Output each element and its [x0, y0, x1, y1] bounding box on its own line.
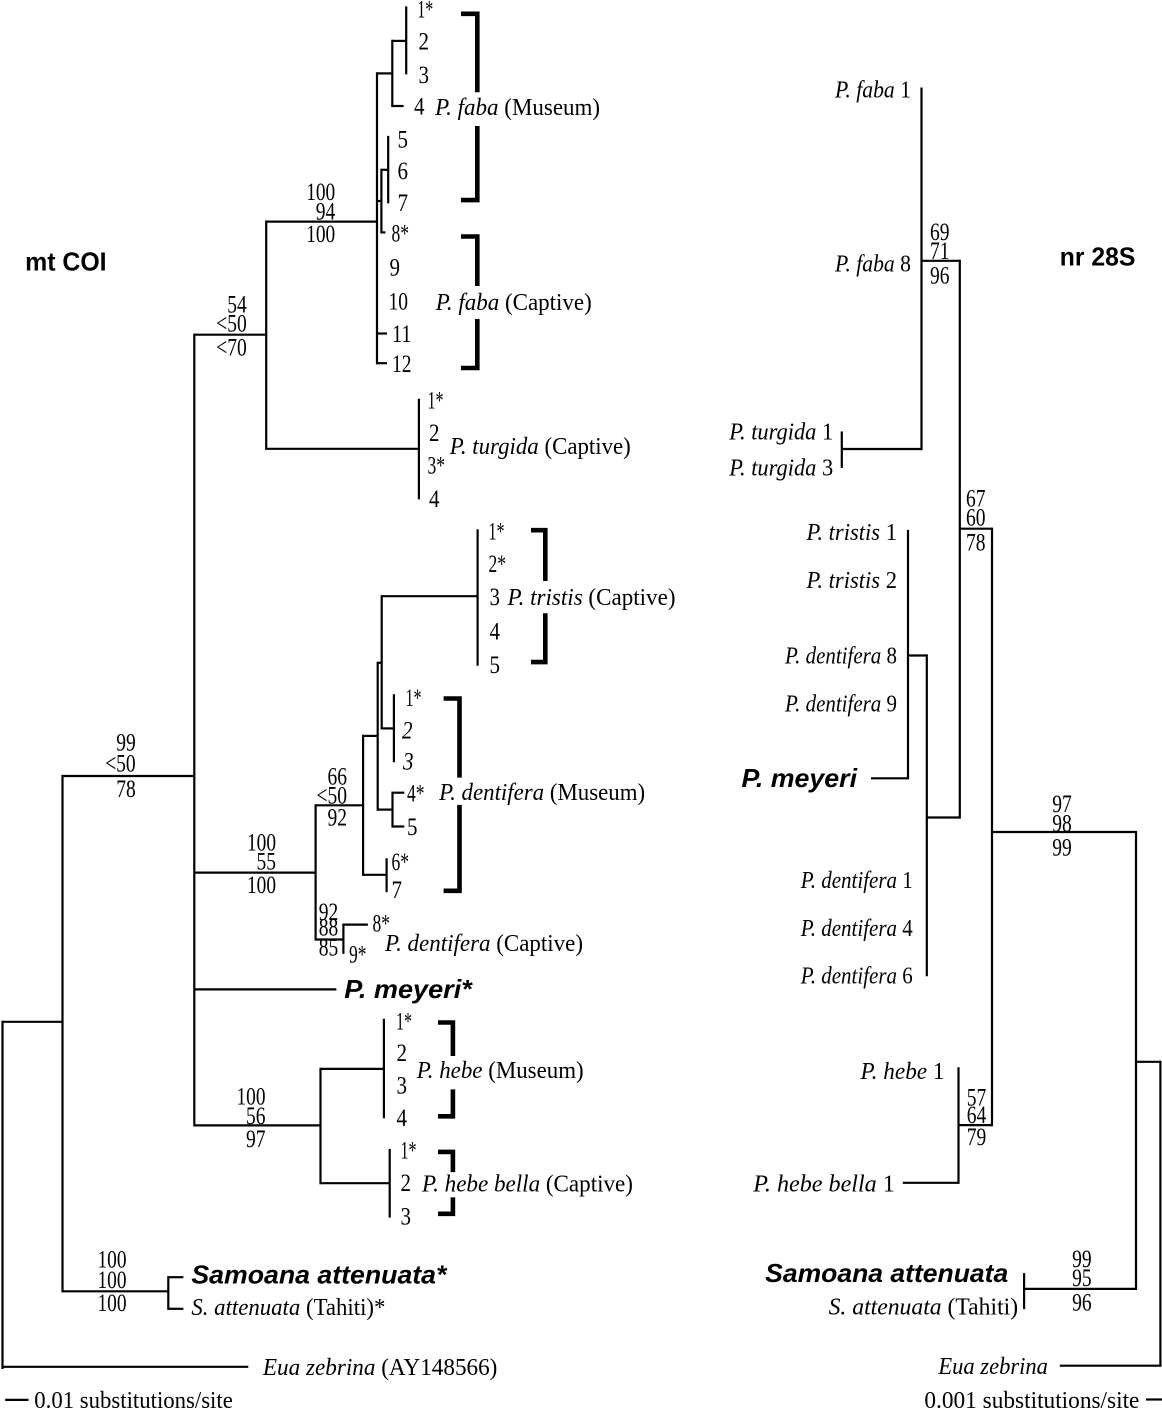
- svg-text:4: 4: [414, 93, 425, 120]
- dentifera 123 cluster branch: [382, 727, 394, 729]
- svg-text:4*: 4*: [407, 780, 425, 807]
- svg-text:3: 3: [397, 1073, 408, 1100]
- dentifera 45 cluster branch: [378, 808, 393, 810]
- svg-text:P. hebe bella (Captive): P. hebe bella (Captive): [421, 1171, 633, 1197]
- svg-text:6*: 6*: [392, 849, 410, 876]
- svg-text:P. hebe 1: P. hebe 1: [860, 1059, 945, 1085]
- faba (567)+8 clade branch: [377, 200, 381, 202]
- svg-text:3: 3: [490, 584, 501, 611]
- svg-text:4: 4: [490, 618, 501, 645]
- branch 66/<50/92: [316, 804, 364, 806]
- faba 5-7 cluster vertical: [387, 136, 389, 204]
- svg-text:<70: <70: [216, 334, 247, 361]
- Samoana clade branch: [63, 1290, 169, 1292]
- svg-text:P. hebe bella 1: P. hebe bella 1: [752, 1171, 895, 1197]
- faba tip 12 branch: [377, 362, 387, 364]
- svg-text:8*: 8*: [392, 221, 410, 248]
- svg-text:3: 3: [402, 749, 413, 776]
- svg-text:9: 9: [390, 255, 401, 282]
- svg-text:100: 100: [98, 1290, 127, 1317]
- P. faba clade vertical: [376, 72, 378, 364]
- branch 67/60/78 R: [960, 528, 992, 530]
- svg-text:2: 2: [429, 420, 440, 447]
- svg-text:P. dentifera 4: P. dentifera 4: [800, 916, 913, 942]
- svg-text:1*: 1*: [417, 0, 433, 23]
- P. meyeri branch R: [871, 777, 908, 779]
- faba (123)+4 clade branch: [377, 72, 392, 74]
- svg-text:nr 28S: nr 28S: [1060, 241, 1136, 271]
- svg-text:1*: 1*: [489, 518, 505, 545]
- P. turgida clade branch: [266, 448, 419, 450]
- P. hebe clade branch: [321, 1068, 384, 1070]
- svg-text:P. faba 8: P. faba 8: [834, 251, 911, 277]
- Samoana cluster vertical: [167, 1276, 169, 1310]
- svg-text:5: 5: [398, 126, 409, 153]
- svg-text:P. hebe (Museum): P. hebe (Museum): [416, 1058, 584, 1084]
- branch 100/56/97: [194, 1124, 320, 1126]
- svg-text:P. tristis (Captive): P. tristis (Captive): [507, 585, 676, 611]
- svg-text:100: 100: [306, 221, 335, 248]
- svg-text:92: 92: [328, 805, 348, 832]
- P. tristis cluster vertical: [477, 529, 479, 666]
- svg-text:P. dentifera (Museum): P. dentifera (Museum): [438, 780, 645, 806]
- faba clade vertical R: [920, 88, 922, 451]
- faba tip 4 branch: [392, 105, 403, 107]
- node 97/98/99 vertical R: [1135, 831, 1137, 1290]
- P. hebe cluster vertical: [383, 1019, 385, 1119]
- svg-text:78: 78: [966, 530, 986, 557]
- dentifera 1-3 cluster vertical: [393, 694, 395, 762]
- svg-text:7: 7: [398, 190, 409, 217]
- branch 66/<50/92 parent: [363, 735, 378, 737]
- svg-text:7: 7: [392, 877, 403, 904]
- faba 123 cluster branch: [392, 40, 406, 42]
- bracket P. dentifera Museum: [444, 699, 460, 778]
- svg-text:S. attenuata (Tahiti): S. attenuata (Tahiti): [829, 1295, 1019, 1321]
- P. meyeri branch: [194, 988, 336, 990]
- svg-text:78: 78: [116, 776, 136, 803]
- svg-text:5: 5: [407, 814, 418, 841]
- branch 99/<50/78: [63, 775, 195, 777]
- faba (123)+4 vertical: [391, 40, 393, 107]
- svg-text:0.01 substitutions/site: 0.01 substitutions/site: [34, 1388, 233, 1409]
- svg-text:2: 2: [402, 718, 413, 745]
- svg-text:71: 71: [930, 238, 950, 265]
- faba clade parent branch R: [922, 260, 960, 262]
- dentifera 6-7 cluster vertical: [386, 858, 388, 892]
- faba (567)+8 vertical: [380, 169, 382, 234]
- svg-text:4: 4: [429, 486, 440, 513]
- svg-text:S. attenuata (Tahiti)*: S. attenuata (Tahiti)*: [191, 1295, 385, 1321]
- svg-text:4: 4: [397, 1105, 408, 1132]
- svg-text:100: 100: [247, 872, 276, 899]
- right scale bar: [1146, 1398, 1162, 1400]
- svg-text:2*: 2*: [489, 551, 507, 578]
- svg-text:P. faba (Captive): P. faba (Captive): [435, 290, 592, 316]
- left scale bar: [5, 1399, 28, 1401]
- root vertical R: [1159, 1061, 1161, 1367]
- faba+turgida node vertical: [265, 221, 267, 450]
- svg-text:P. turgida (Captive): P. turgida (Captive): [449, 434, 631, 460]
- svg-text:3*: 3*: [428, 453, 446, 480]
- svg-text:P. tristis 1: P. tristis 1: [806, 520, 897, 546]
- hebe cluster parent branch R: [959, 1124, 993, 1126]
- branch 100/94/100: [266, 221, 377, 223]
- Samoana attenuata tip branch: [168, 1276, 183, 1278]
- svg-text:P. tristis 2: P. tristis 2: [806, 568, 897, 594]
- svg-text:P. dentifera 9: P. dentifera 9: [784, 691, 897, 717]
- svg-text:<50: <50: [105, 751, 136, 778]
- svg-text:95: 95: [1072, 1265, 1092, 1292]
- hebe cluster vertical R: [957, 1067, 959, 1184]
- svg-text:mt COI: mt COI: [25, 247, 107, 277]
- dentifera cluster parent branch R: [927, 816, 960, 818]
- dentifera tip 8 branch: [343, 923, 368, 925]
- root to upper clade branch: [3, 1021, 63, 1023]
- svg-text:P. faba 1: P. faba 1: [834, 77, 911, 103]
- tristis cluster parent branch R: [908, 654, 927, 656]
- svg-text:60: 60: [966, 505, 986, 532]
- Eua zebrina branch: [3, 1366, 249, 1368]
- dentifera 8-9 cluster vertical: [342, 924, 344, 954]
- node 69/71/96 vertical R: [959, 260, 961, 819]
- dentifera 100/55 node vertical: [315, 804, 317, 940]
- dentifera 67 cluster branch: [363, 874, 387, 876]
- svg-text:P. dentifera 6: P. dentifera 6: [800, 964, 913, 990]
- tristis-meyeri cluster vertical R: [907, 530, 909, 780]
- branch 97/98/99 R: [992, 831, 1136, 833]
- svg-text:96: 96: [930, 263, 950, 290]
- svg-text:85: 85: [319, 935, 339, 962]
- svg-text:Eua zebrina (AY148566): Eua zebrina (AY148566): [262, 1355, 497, 1381]
- svg-text:5: 5: [490, 652, 501, 679]
- svg-text:12: 12: [392, 351, 412, 378]
- bracket P. faba Captive: [461, 237, 477, 287]
- branch 54/<50/<70: [194, 334, 266, 336]
- svg-text:96: 96: [1072, 1290, 1092, 1317]
- svg-text:P. turgida 3: P. turgida 3: [728, 456, 833, 482]
- P. hebe bella clade branch: [321, 1182, 390, 1184]
- bracket P. faba Museum: [461, 14, 477, 93]
- S. attenuata Tahiti tip branch: [168, 1308, 183, 1310]
- dentifera 4-5 cluster vertical: [391, 792, 393, 828]
- svg-text:1*: 1*: [406, 685, 422, 712]
- turgida cluster vertical R: [841, 431, 843, 468]
- svg-text:2: 2: [397, 1040, 408, 1067]
- svg-text:P. meyeri*: P. meyeri*: [344, 974, 473, 1004]
- svg-text:2: 2: [401, 1170, 412, 1197]
- branch 100/55/100: [194, 871, 315, 873]
- svg-text:P. dentifera 1: P. dentifera 1: [800, 868, 913, 894]
- dentifera cluster vertical R: [926, 654, 928, 976]
- svg-text:9*: 9*: [349, 942, 367, 969]
- svg-text:Samoana attenuata*: Samoana attenuata*: [191, 1259, 448, 1289]
- svg-text:10: 10: [389, 289, 409, 316]
- svg-text:3: 3: [401, 1203, 412, 1230]
- svg-text:P. turgida 1: P. turgida 1: [728, 420, 833, 446]
- svg-text:Samoana attenuata: Samoana attenuata: [765, 1258, 1008, 1288]
- Samoana clade branch R: [1024, 1288, 1136, 1290]
- bracket P. tristis: [531, 530, 545, 581]
- tristis+dent123 node vertical: [381, 595, 383, 729]
- P. tristis clade branch: [382, 595, 478, 597]
- faba 1-3 cluster vertical: [405, 6, 407, 74]
- dentifera tip 5 branch: [393, 825, 405, 827]
- bracket P. hebe bella: [438, 1152, 453, 1172]
- svg-text:P. dentifera 8: P. dentifera 8: [784, 644, 897, 670]
- P. hebe bella 1 branch R: [903, 1182, 959, 1184]
- svg-text:6: 6: [398, 158, 409, 185]
- Partula backbone vertical: [193, 334, 195, 1127]
- root vertical: [1, 1021, 3, 1369]
- turgida cluster branch R: [842, 448, 922, 450]
- hebe node vertical: [319, 1068, 321, 1185]
- svg-text:P. faba (Museum): P. faba (Museum): [434, 95, 600, 121]
- svg-text:2: 2: [419, 29, 430, 56]
- svg-text:0.001 substitutions/site: 0.001 substitutions/site: [924, 1388, 1139, 1409]
- svg-text:99: 99: [1052, 835, 1072, 862]
- svg-text:1*: 1*: [428, 388, 444, 415]
- tristis node parent branch: [378, 662, 382, 664]
- svg-text:3: 3: [419, 62, 430, 89]
- node Partula+Samoana vertical: [61, 775, 63, 1293]
- faba tip 8 branch: [381, 231, 385, 233]
- P. hebe bella cluster vertical: [389, 1149, 391, 1218]
- dentifera tip 4 branch: [393, 792, 405, 794]
- svg-text:97: 97: [246, 1126, 266, 1153]
- svg-text:79: 79: [967, 1124, 987, 1151]
- dentifera upper node vertical: [377, 662, 379, 811]
- svg-text:1*: 1*: [401, 1138, 417, 1165]
- Eua zebrina branch R: [1060, 1365, 1161, 1367]
- dentifera 66-node vertical: [362, 735, 364, 876]
- svg-text:P. meyeri: P. meyeri: [742, 763, 858, 793]
- node 67/60/78 vertical R: [991, 528, 993, 1127]
- svg-text:98: 98: [1052, 811, 1072, 838]
- bracket P. hebe Museum: [438, 1023, 453, 1057]
- faba 567 cluster branch: [381, 169, 388, 171]
- root upper branch R: [1136, 1061, 1160, 1063]
- P. turgida cluster vertical: [418, 399, 420, 500]
- svg-text:11: 11: [392, 321, 412, 348]
- svg-text:Eua zebrina: Eua zebrina: [937, 1354, 1047, 1380]
- svg-text:P. dentifera (Captive): P. dentifera (Captive): [384, 931, 583, 957]
- Samoana cluster vertical R: [1023, 1273, 1025, 1309]
- svg-text:1*: 1*: [396, 1008, 412, 1035]
- branch 92/88/85: [316, 938, 344, 940]
- faba tip 11 branch: [377, 332, 387, 334]
